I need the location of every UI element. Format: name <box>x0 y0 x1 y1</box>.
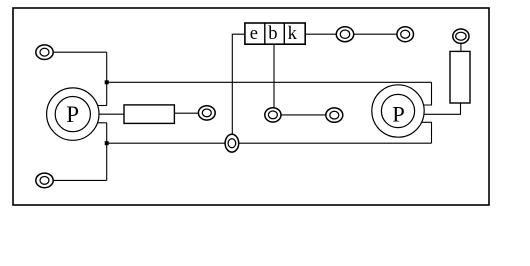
svg-text:b: b <box>268 24 277 44</box>
transistor socket e b k <box>245 23 305 44</box>
junction dot on bottom bus <box>105 141 109 145</box>
wire socket e pin to terminal T4 <box>232 34 245 143</box>
wire meter P1 middle stub to resistor R1 <box>98 113 124 115</box>
wire socket k pin to terminal T7 <box>305 33 345 35</box>
meter P2 <box>372 85 424 137</box>
wire terminal T9 down to resistor R2 top <box>460 36 462 51</box>
terminal T4 <box>225 134 239 152</box>
svg-text:k: k <box>288 24 298 44</box>
wire from terminal T1 to left vertical bus <box>45 51 107 53</box>
terminal T1 <box>36 45 53 60</box>
wire left vertical bus upper (T1 down to meter P1 upper stub) <box>106 52 108 105</box>
wire top horizontal bus <box>107 81 432 83</box>
svg-text:P: P <box>392 102 405 127</box>
terminal T2 <box>36 173 53 188</box>
wire socket b pin down to terminal T5 <box>273 44 275 115</box>
terminal T7 <box>336 27 353 42</box>
wire right vertical from top bus to meter P2 upper stub <box>423 82 432 105</box>
wire meter P1 lower stub <box>97 122 107 124</box>
junction dot on top bus <box>105 80 109 84</box>
terminal T3 <box>198 106 215 120</box>
terminal T6 <box>326 108 343 122</box>
terminal T5 <box>265 108 281 122</box>
panel border frame <box>13 8 489 205</box>
svg-text:e: e <box>250 24 258 44</box>
resistor R1 <box>124 105 174 124</box>
wire meter P2 lower stub to bottom bus <box>422 122 432 143</box>
terminal T9 <box>453 29 469 43</box>
svg-text:P: P <box>66 102 79 127</box>
wire meter P2 middle stub to resistor R2 bottom <box>424 103 461 114</box>
wire meter P1 upper stub <box>97 105 107 107</box>
resistor R2 <box>450 51 470 103</box>
wire terminal T5 to terminal T6 <box>273 114 334 116</box>
wire resistor R1 to terminal T3 <box>174 112 206 114</box>
wire terminal T2 to left vertical bus <box>45 179 107 181</box>
wire left vertical bus lower (meter P1 lower stub down to T2 level) <box>106 123 108 181</box>
wire terminal T7 to terminal T8 <box>345 33 405 35</box>
terminal T8 <box>397 27 414 42</box>
wire bottom horizontal bus <box>107 142 432 144</box>
meter P1 <box>47 88 99 140</box>
